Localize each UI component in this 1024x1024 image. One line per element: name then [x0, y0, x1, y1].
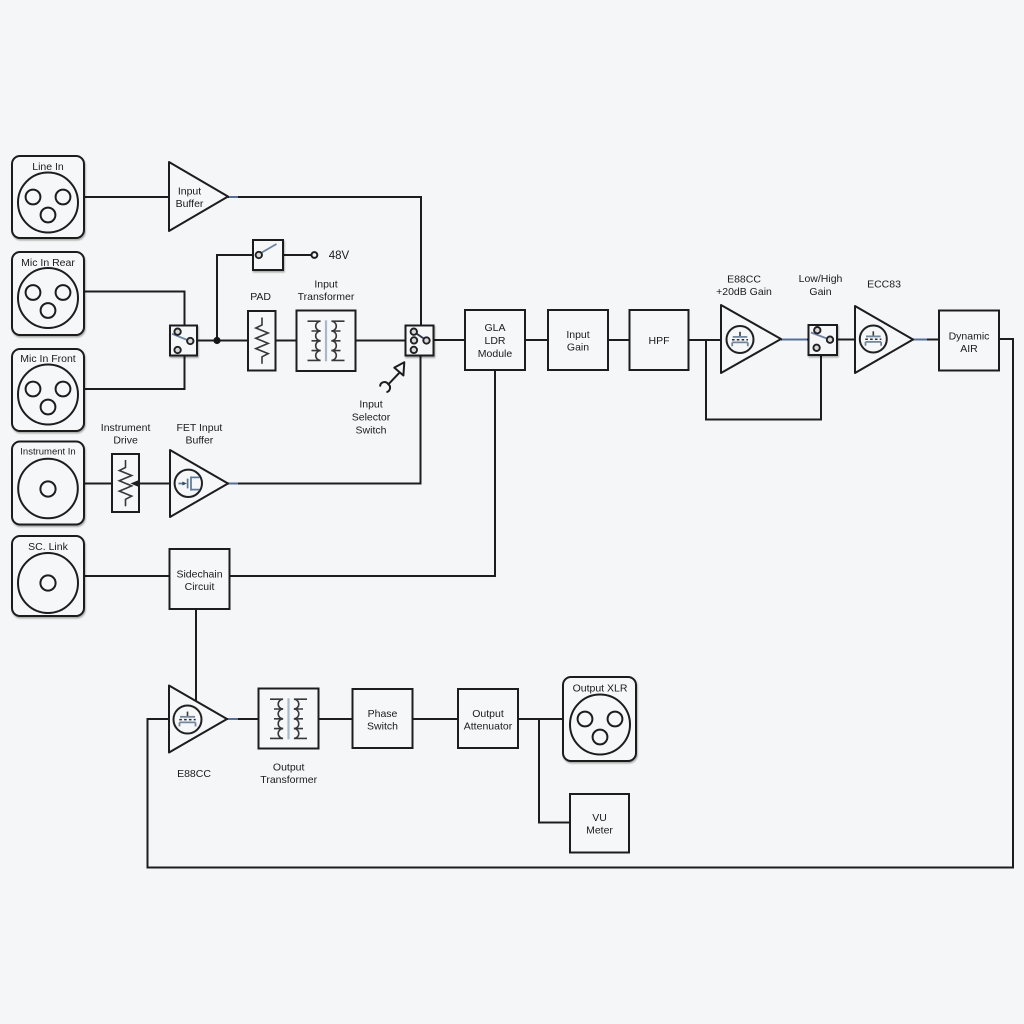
svg-text:Instrument In: Instrument In: [20, 447, 75, 458]
svg-text:Input: Input: [566, 329, 589, 341]
svg-text:GLA: GLA: [484, 322, 505, 334]
svg-text:Input: Input: [314, 279, 337, 291]
svg-text:LDR: LDR: [484, 335, 505, 347]
svg-text:E88CC: E88CC: [727, 273, 761, 285]
svg-text:Input: Input: [359, 398, 382, 410]
svg-text:Transformer: Transformer: [260, 774, 317, 786]
svg-text:Meter: Meter: [586, 824, 613, 836]
svg-text:ECC83: ECC83: [867, 278, 901, 290]
svg-text:HPF: HPF: [649, 335, 670, 347]
svg-text:Module: Module: [478, 348, 513, 360]
svg-text:Gain: Gain: [567, 341, 589, 353]
svg-text:Drive: Drive: [113, 435, 138, 447]
svg-text:Mic In Rear: Mic In Rear: [21, 257, 75, 269]
svg-text:AIR: AIR: [960, 343, 978, 355]
svg-text:Output: Output: [273, 762, 305, 774]
svg-text:+20dB Gain: +20dB Gain: [716, 286, 772, 298]
svg-text:Attenuator: Attenuator: [464, 720, 513, 732]
svg-text:48V: 48V: [329, 250, 350, 262]
svg-text:Switch: Switch: [356, 424, 387, 436]
svg-text:PAD: PAD: [250, 291, 271, 303]
svg-text:Mic In Front: Mic In Front: [20, 353, 76, 365]
svg-text:Sidechain: Sidechain: [176, 568, 222, 580]
svg-text:Output XLR: Output XLR: [573, 683, 628, 695]
svg-text:Buffer: Buffer: [185, 435, 213, 447]
svg-text:E88CC: E88CC: [177, 768, 211, 780]
svg-text:Gain: Gain: [809, 286, 831, 298]
svg-text:SC. Link: SC. Link: [28, 541, 68, 553]
svg-text:Dynamic: Dynamic: [949, 330, 990, 342]
svg-text:Transformer: Transformer: [298, 291, 355, 303]
svg-text:Line In: Line In: [32, 161, 64, 173]
svg-text:Instrument: Instrument: [101, 422, 151, 434]
svg-text:Low/High: Low/High: [799, 273, 843, 285]
svg-text:FET Input: FET Input: [176, 422, 222, 434]
svg-text:Buffer: Buffer: [176, 198, 204, 210]
svg-text:Circuit: Circuit: [185, 581, 215, 593]
svg-text:Input: Input: [178, 186, 201, 198]
svg-text:Selector: Selector: [352, 411, 391, 423]
svg-text:Phase: Phase: [368, 708, 398, 720]
svg-text:Output: Output: [472, 708, 504, 720]
svg-text:Switch: Switch: [367, 720, 398, 732]
svg-text:VU: VU: [592, 812, 607, 824]
